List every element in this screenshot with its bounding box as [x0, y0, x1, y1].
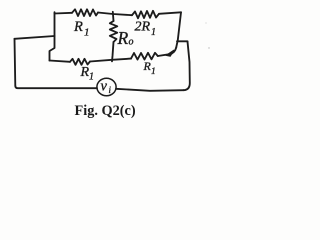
svg-text:R: R — [73, 19, 83, 35]
speck noise — [208, 47, 209, 48]
svg-text:i: i — [109, 85, 112, 95]
wire outer-right edge — [184, 42, 190, 91]
resistor Ro (vertical) — [110, 21, 118, 42]
wire top-right segment — [159, 12, 181, 14]
wire outer-left edge — [14, 39, 17, 86]
svg-text:1: 1 — [84, 27, 90, 39]
svg-text:2R: 2R — [135, 20, 151, 35]
wire outer tap top — [15, 36, 55, 39]
svg-text:v: v — [101, 79, 108, 95]
wire inner-left edge — [50, 12, 55, 60]
svg-text:1: 1 — [151, 27, 156, 38]
wire mid-right hook to junction — [158, 48, 176, 57]
source Vi circle — [97, 78, 116, 96]
svg-text:Fig. Q2(c): Fig. Q2(c) — [75, 103, 136, 119]
wire mid-left segment — [50, 61, 71, 62]
wire mid-middle segment — [90, 59, 131, 62]
resistor R1 (top left) — [72, 9, 98, 16]
svg-text:R: R — [117, 28, 129, 48]
resistor R1 (middle right) — [131, 53, 158, 60]
svg-text:1: 1 — [151, 67, 156, 77]
wire top-left segment — [55, 12, 73, 15]
wire Ro bottom stub — [112, 42, 114, 61]
resistor 2R1 (top right) — [132, 11, 159, 18]
junction arrowhead at mid-right — [166, 50, 174, 56]
wire top-middle segment — [98, 13, 132, 16]
svg-text:R: R — [80, 65, 90, 80]
wire jog to outer right edge — [177, 40, 188, 42]
svg-text:o: o — [129, 37, 134, 48]
wire bottom-right segment — [116, 89, 184, 91]
svg-text:1: 1 — [89, 72, 94, 83]
wire bottom-left segment — [15, 86, 97, 88]
resistor R1 (middle left) — [70, 59, 90, 65]
resistor Ro stub top — [112, 12, 115, 21]
wire inner-right edge — [176, 12, 181, 47]
